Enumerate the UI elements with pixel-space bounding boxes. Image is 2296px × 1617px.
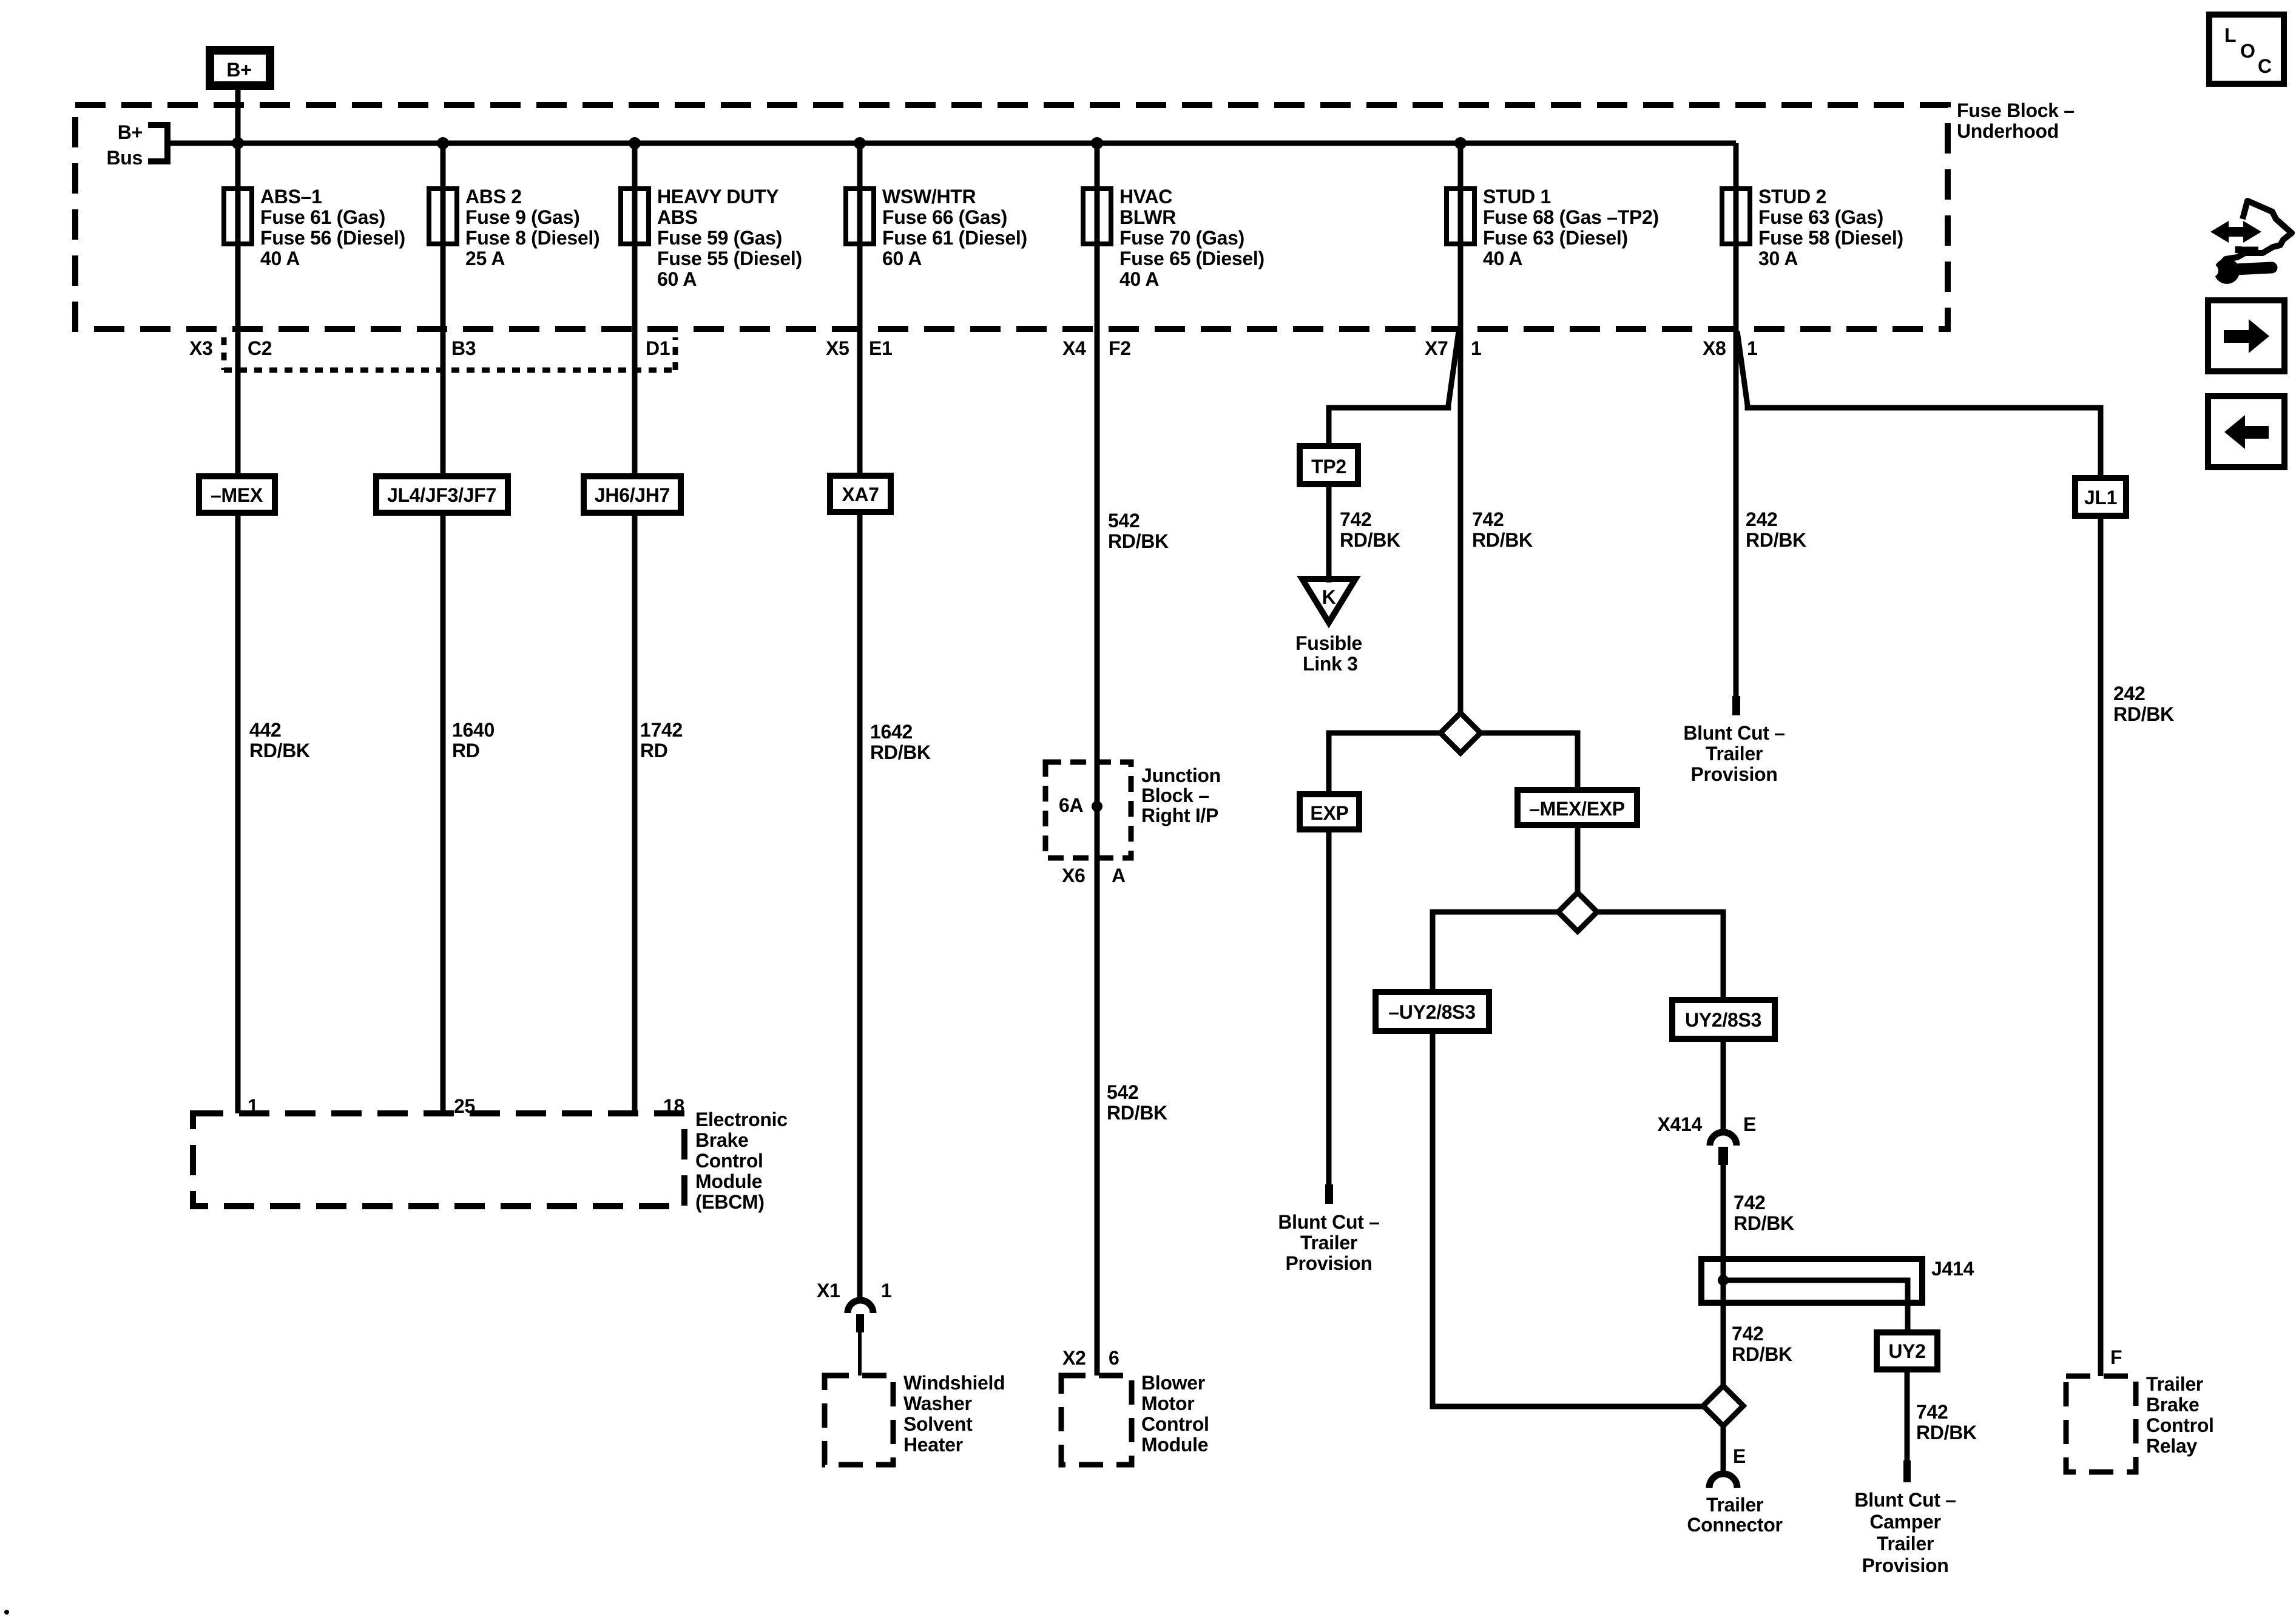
junction dot J414 [1718,1275,1729,1286]
svg-text:Motor: Motor [1141,1393,1194,1414]
svg-text:RD: RD [640,740,668,761]
svg-text:Provision: Provision [1690,763,1777,785]
wire fuse HVAC BLWR to connector row [1095,244,1100,329]
svg-text:HVAC: HVAC [1119,186,1172,208]
svg-text:40 A: 40 A [260,248,300,269]
inline connector X414 terminal bar [1718,1147,1728,1165]
wire fuse HEAVY DUTY ABS to connector row [632,244,638,329]
svg-text:Module: Module [695,1170,762,1192]
fuse HEAVY DUTY ABS [621,189,649,244]
wire bus to fuse STUD 2 [1734,143,1739,189]
dotted connector box X3 [224,337,675,370]
arrow box left [2208,396,2284,467]
blunt cut bar X8 [1732,696,1740,715]
svg-text:EXP: EXP [1310,802,1348,824]
svg-text:X3: X3 [189,337,213,359]
connector box -UY2/8S3 [1376,992,1489,1031]
wire X414 to J414 and diamond3 [1721,1165,1726,1387]
wire STUD1 to splice [1458,329,1464,714]
B+ Bus bracket [148,125,167,161]
junction dot bus x=730 [437,137,449,149]
blower motor control module dashed box [1061,1376,1132,1465]
svg-text:E1: E1 [869,337,893,359]
svg-text:Solvent: Solvent [903,1413,973,1435]
svg-text:1: 1 [881,1280,892,1301]
wire col 730 to EBCM [441,513,446,1113]
svg-text:Blunt Cut –: Blunt Cut – [1854,1489,1956,1511]
svg-text:E: E [1733,1445,1746,1467]
svg-text:Module: Module [1141,1434,1208,1456]
splice diamond 1 [1440,713,1481,753]
svg-text:B+: B+ [118,121,143,143]
svg-text:Brake: Brake [695,1129,748,1151]
wire bus to fuse ABS 2 [441,143,446,189]
svg-text:RD/BK: RD/BK [1340,529,1400,551]
svg-text:Windshield: Windshield [903,1372,1005,1394]
wire HVAC to blower [1095,329,1100,1376]
svg-text:Fuse 65 (Diesel): Fuse 65 (Diesel) [1119,248,1264,269]
svg-text:Fuse 59 (Gas): Fuse 59 (Gas) [657,227,782,249]
svg-text:Fuse 66 (Gas): Fuse 66 (Gas) [882,206,1007,228]
svg-text:242: 242 [2113,683,2146,704]
svg-text:Trailer: Trailer [1877,1533,1934,1555]
svg-text:Heater: Heater [903,1434,963,1456]
svg-text:Trailer: Trailer [1300,1232,1357,1254]
svg-text:WSW/HTR: WSW/HTR [882,186,976,208]
svg-text:X7: X7 [1425,337,1448,359]
svg-text:Fuse 61 (Gas): Fuse 61 (Gas) [260,206,385,228]
svg-text:742: 742 [1734,1192,1766,1214]
page dot bottom left [4,1610,9,1615]
svg-text:Fusible: Fusible [1295,632,1362,654]
svg-text:542: 542 [1107,1081,1139,1103]
wire MEX/EXP to diamond2 [1575,825,1581,894]
svg-text:RD/BK: RD/BK [2113,703,2174,725]
svg-text:Bus: Bus [106,147,143,169]
svg-text:Washer: Washer [903,1393,972,1414]
svg-text:1642: 1642 [870,721,913,743]
fuse STUD 2 [1722,189,1750,244]
svg-text:ABS–1: ABS–1 [260,186,322,208]
wire diamond2 to -UY2/8S3 [1433,912,1558,992]
fuse STUD 1 [1447,189,1474,244]
svg-text:Right I/P: Right I/P [1141,805,1218,826]
junction dot bus x=1046 [629,137,641,149]
wire bus to fuse HEAVY DUTY ABS [632,143,638,189]
svg-text:X6: X6 [1062,865,1086,886]
power distribution icon double arrow [2210,221,2261,243]
svg-text:Fuse 68 (Gas –TP2): Fuse 68 (Gas –TP2) [1483,206,1659,228]
wire fuse STUD 2 to connector row [1734,244,1739,329]
svg-text:F2: F2 [1109,337,1131,359]
svg-text:JL4/JF3/JF7: JL4/JF3/JF7 [387,484,496,506]
svg-text:JH6/JH7: JH6/JH7 [595,484,670,506]
svg-text:1: 1 [1471,337,1482,359]
svg-text:Blower: Blower [1141,1372,1205,1394]
svg-text:RD/BK: RD/BK [1108,530,1169,552]
wire fuse ABS-1 to connector row [235,244,241,329]
fuse ABS-1 [224,189,252,244]
svg-text:Fuse 63 (Diesel): Fuse 63 (Diesel) [1483,227,1628,249]
wire fuse ABS 2 to connector row [441,244,446,329]
wire bus to fuse ABS-1 [235,143,241,189]
svg-text:RD/BK: RD/BK [1916,1422,1977,1443]
svg-text:Fuse 9 (Gas): Fuse 9 (Gas) [465,206,579,228]
fuse ABS 2 [429,189,457,244]
svg-text:JL1: JL1 [2084,487,2117,508]
svg-text:X1: X1 [817,1280,840,1301]
wire X8 fanout slant to JL1 [1737,331,2101,478]
svg-text:B+: B+ [226,59,251,81]
svg-text:6: 6 [1109,1347,1119,1369]
power distribution icon thumb stroke [2238,246,2258,253]
splice diamond 3 trailer [1703,1386,1743,1426]
svg-text:60 A: 60 A [657,268,697,290]
wire UY2/8S3 to X414 [1721,1039,1726,1132]
svg-text:STUD 2: STUD 2 [1758,186,1826,208]
svg-text:742: 742 [1916,1401,1948,1423]
svg-text:X414: X414 [1657,1113,1702,1135]
wire diamond1 to MEX/EXP [1481,733,1578,790]
svg-text:Trailer: Trailer [1706,743,1763,765]
svg-text:X5: X5 [826,337,849,359]
svg-text:Junction: Junction [1141,765,1221,786]
svg-text:TP2: TP2 [1311,456,1346,478]
svg-text:Connector: Connector [1687,1514,1782,1536]
svg-text:Trailer: Trailer [2146,1373,2203,1395]
svg-text:40 A: 40 A [1119,268,1159,290]
svg-text:Provision: Provision [1285,1252,1372,1274]
LOC reference box [2209,15,2284,84]
svg-text:J414: J414 [1931,1258,1974,1280]
svg-text:1640: 1640 [452,719,495,741]
wire diamond2 to UY2/8S3 [1597,912,1723,1000]
bus wire [167,141,1736,146]
svg-text:742: 742 [1472,508,1504,530]
svg-text:Electronic: Electronic [695,1109,788,1130]
wire fuse STUD 1 to connector row [1458,244,1464,329]
blunt cut bar camper [1903,1460,1911,1482]
junction dot bus x=2407 [1454,137,1467,149]
svg-text:242: 242 [1746,508,1778,530]
connector box EXP [1300,794,1359,829]
power distribution icon hand outline [2222,201,2292,263]
connector box JL1 [2075,478,2126,516]
svg-text:Fuse 56 (Diesel): Fuse 56 (Diesel) [260,227,405,249]
svg-text:C: C [2258,55,2272,77]
trailer brake control relay dashed box [2066,1376,2136,1472]
svg-text:HEAVY DUTY: HEAVY DUTY [657,186,778,208]
connector box XA7 [830,476,891,512]
splice pack J414 box [1701,1259,1922,1303]
svg-text:Control: Control [695,1150,763,1172]
wire diamond3 to trailer connector [1721,1426,1726,1474]
connector box UY2 [1877,1332,1937,1369]
windshield washer solvent heater dashed box [825,1376,893,1465]
svg-text:L: L [2224,24,2236,46]
connector box JH6/JH7 [584,476,681,513]
wire X7 fanout slant [1329,331,1459,446]
svg-text:BLWR: BLWR [1119,206,1176,228]
wire STUD2 to blunt cut [1734,329,1739,696]
wire bus to fuse WSW/HTR [857,143,863,189]
svg-text:RD/BK: RD/BK [1734,1212,1794,1234]
connector box -MEX/EXP [1518,790,1637,825]
svg-text:442: 442 [249,719,282,741]
inline connector X1 terminal bar [856,1314,864,1332]
svg-text:Control: Control [2146,1414,2214,1436]
wire XA7 to X1 [857,512,863,1300]
wire J414 internal to UY2 [1723,1280,1908,1332]
svg-text:542: 542 [1108,510,1140,532]
svg-text:–MEX: –MEX [211,484,263,506]
connector box JL4/JF3/JF7 [376,476,508,513]
svg-text:6A: 6A [1059,794,1083,816]
svg-text:Fuse Block –: Fuse Block – [1957,100,2075,121]
wire TP2 to fusible link [1326,484,1332,582]
svg-text:B3: B3 [451,337,476,359]
svg-text:K: K [1322,586,1336,608]
svg-text:UY2: UY2 [1888,1340,1925,1362]
svg-text:RD: RD [452,740,480,761]
wire diamond1 to EXP [1329,733,1440,794]
svg-text:F: F [2110,1346,2122,1368]
svg-text:E: E [1743,1113,1756,1135]
svg-text:25 A: 25 A [465,248,505,269]
inline connector X414 arc [1710,1132,1737,1146]
fuse WSW/HTR [846,189,874,244]
svg-text:Fuse 70 (Gas): Fuse 70 (Gas) [1119,227,1244,249]
trailer connector arc [1709,1474,1737,1488]
wire col 1046 to EBCM [632,513,638,1113]
wire UY2 to camper blunt cut [1905,1369,1910,1460]
svg-text:RD/BK: RD/BK [1107,1102,1167,1124]
svg-text:X4: X4 [1062,337,1086,359]
fusible link K triangle [1302,579,1356,623]
wire X1 to washer [858,1332,862,1376]
connector box UY2/8S3 [1672,1000,1775,1039]
EBCM dashed box [193,1113,684,1206]
svg-text:D1: D1 [646,337,670,359]
wire B+ to bus [235,90,241,143]
splice diamond 2 [1558,893,1597,931]
wire -UY2/8S3 to trailer splice [1433,1031,1703,1406]
svg-text:ABS: ABS [657,206,698,228]
inline connector X1 arc [848,1300,873,1313]
junction dot bus x=1417 [854,137,866,149]
svg-text:40 A: 40 A [1483,248,1522,269]
svg-text:–UY2/8S3: –UY2/8S3 [1388,1001,1475,1023]
svg-text:30 A: 30 A [1758,248,1798,269]
wire bus to fuse HVAC BLWR [1095,143,1100,189]
svg-text:1: 1 [1747,337,1758,359]
svg-text:742: 742 [1732,1323,1764,1345]
fuse block underhood dashed box [75,105,1948,329]
svg-text:Relay: Relay [2146,1435,2197,1457]
fuse HVAC BLWR [1083,189,1111,244]
svg-text:Control: Control [1141,1413,1209,1435]
svg-text:X2: X2 [1062,1347,1086,1369]
svg-text:C2: C2 [248,337,272,359]
wrench icon [2214,258,2240,284]
connector box -MEX [199,476,275,513]
svg-text:RD/BK: RD/BK [249,740,310,761]
svg-text:ABS 2: ABS 2 [465,186,522,208]
connector box TP2 [1300,446,1358,484]
arrow box right [2208,300,2284,371]
wire col 392 to EBCM [235,513,241,1113]
wire WSW to XA7 [857,329,863,476]
junction dot 6A [1092,801,1102,812]
wire col 392 to box row [235,329,241,476]
svg-text:Fuse 8 (Diesel): Fuse 8 (Diesel) [465,227,599,249]
wire fuse WSW/HTR to connector row [857,244,863,329]
svg-text:Camper: Camper [1869,1511,1940,1533]
svg-text:Blunt Cut –: Blunt Cut – [1683,722,1784,744]
wire bus to fuse STUD 1 [1458,143,1464,189]
svg-text:Provision: Provision [1862,1555,1948,1576]
svg-text:742: 742 [1340,508,1372,530]
svg-text:XA7: XA7 [842,484,879,505]
battery feed B+ box [210,50,270,86]
svg-text:Link 3: Link 3 [1303,653,1358,675]
svg-text:O: O [2240,40,2255,62]
wire JL1 to trailer brake relay [2098,516,2104,1376]
svg-text:RD/BK: RD/BK [1746,529,1806,551]
svg-text:Underhood: Underhood [1957,120,2059,142]
svg-text:RD/BK: RD/BK [1472,529,1533,551]
wire col 730 to box row [441,329,446,476]
svg-text:–MEX/EXP: –MEX/EXP [1529,798,1625,820]
junction dot bus x=392 [232,137,244,149]
svg-text:Fuse 61 (Diesel): Fuse 61 (Diesel) [882,227,1027,249]
blunt cut bar EXP [1325,1184,1333,1204]
svg-text:Brake: Brake [2146,1394,2199,1416]
junction dot bus x=1808 [1091,137,1103,149]
svg-text:Fuse 58 (Diesel): Fuse 58 (Diesel) [1758,227,1903,249]
svg-text:RD/BK: RD/BK [1732,1343,1792,1365]
svg-text:Fuse 63 (Gas): Fuse 63 (Gas) [1758,206,1883,228]
svg-text:(EBCM): (EBCM) [695,1191,765,1213]
svg-text:60 A: 60 A [882,248,922,269]
svg-text:Trailer: Trailer [1706,1494,1763,1516]
svg-text:RD/BK: RD/BK [870,741,931,763]
wire col 1046 to box row [632,329,638,476]
wire EXP to blunt cut [1326,829,1332,1184]
svg-text:UY2/8S3: UY2/8S3 [1685,1009,1761,1031]
junction block right I/P dashed box [1045,762,1131,858]
svg-text:A: A [1112,865,1126,886]
svg-text:Block –: Block – [1141,785,1209,806]
svg-text:Fuse 55 (Diesel): Fuse 55 (Diesel) [657,248,802,269]
svg-text:X8: X8 [1703,337,1726,359]
svg-text:STUD 1: STUD 1 [1483,186,1551,208]
svg-text:Blunt Cut –: Blunt Cut – [1278,1211,1379,1233]
svg-text:1742: 1742 [640,719,683,741]
